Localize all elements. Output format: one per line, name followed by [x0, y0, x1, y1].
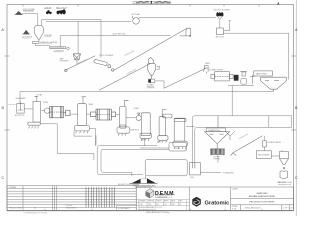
svg-text:SCALE: SCALE [232, 205, 238, 208]
svg-text:TANK: TANK [141, 139, 146, 142]
svg-text:WATER TANK: WATER TANK [256, 73, 268, 76]
label underlines [22, 9, 155, 88]
launder L1 [28, 122, 41, 128]
wire: launder tails route [40, 124, 94, 160]
wire: aux piping [228, 84, 254, 86]
wire: tank base drain [74, 131, 92, 136]
wire: tailings long line upper [192, 116, 291, 163]
wire: box to bag bin [271, 155, 279, 157]
DENM logo [146, 189, 154, 198]
svg-text:Gratomic: Gratomic [205, 200, 231, 206]
svg-text:engineering: engineering [157, 195, 167, 198]
wire: feed line upper [42, 20, 101, 26]
wire: cleaner feed drop [268, 116, 270, 128]
svg-text:C:\DENM\GH001_FLOW.dwg: C:\DENM\GH001_FLOW.dwg [24, 212, 48, 214]
svg-text:PRODUCT SIZE: PRODUCT SIZE [9, 208, 22, 210]
incline conveyor CV-01b [65, 56, 96, 72]
svg-text:PROCESS FLOW SHEET: PROCESS FLOW SHEET [249, 201, 275, 203]
svg-text:DUST RETURN: DUST RETURN [113, 33, 127, 35]
svg-text:C: C [2, 176, 5, 180]
conditioning column K1 [33, 93, 43, 122]
wire: T2 base drain [90, 128, 96, 145]
column tank T4 [140, 113, 151, 141]
wire: press discharge [217, 156, 219, 163]
wire: vertical to concentrate lines [95, 135, 97, 145]
wire: feeder to conveyor [35, 44, 49, 47]
wire: mill2 to T3 [116, 113, 120, 115]
wire: recycle water line [20, 92, 274, 104]
filter press FP1 [210, 149, 224, 161]
svg-text:D.M.: D.M. [140, 204, 144, 206]
wire: tailings long line lower [195, 127, 292, 162]
incline conveyor CV-04 [164, 68, 206, 88]
svg-text:MOISTURE %: MOISTURE % [66, 208, 77, 210]
attrition tank A1 [9, 98, 27, 117]
svg-text:DENM ENGINEERING (PTY) LTD: DENM ENGINEERING (PTY) LTD [138, 207, 163, 209]
wire: line into magnet box [140, 147, 169, 149]
misc small labels [130, 130, 181, 150]
svg-text:ROTARY VALVE: ROTARY VALVE [268, 141, 282, 144]
svg-text:CRUSHER: CRUSHER [60, 61, 70, 63]
svg-text:PUMP BOX: PUMP BOX [130, 130, 140, 132]
svg-text:D.M.: D.M. [148, 204, 152, 206]
pump P0 [241, 78, 247, 84]
rotary dryer D1 [209, 68, 233, 81]
svg-text:STOCKPILE: STOCKPILE [22, 37, 33, 39]
wire: dryer area drop [231, 85, 233, 115]
CV-04 head + dryer feed bin [204, 63, 211, 74]
svg-text:05: 05 [179, 204, 181, 206]
micronizer box [256, 147, 271, 158]
stream table column block [86, 187, 115, 207]
border frame [7, 5, 294, 211]
paper edge right [295, 0, 297, 216]
dry hi-g screen U2 [214, 10, 231, 20]
water tank box [254, 71, 273, 76]
svg-text:ATTRITION: ATTRITION [15, 114, 25, 117]
roll crusher assembly Q2 [94, 55, 114, 71]
jaw crusher Q1 [60, 54, 81, 65]
wire: T4 base drain [144, 138, 146, 145]
conveyor CV-01 [50, 47, 69, 53]
svg-text:STREAM: STREAM [9, 186, 17, 189]
table texts [9, 183, 140, 210]
svg-text:N.T.S.: N.T.S. [232, 209, 237, 211]
svg-text:C: C [295, 176, 298, 180]
tank T3 [117, 100, 130, 135]
svg-text:CONVEYOR: CONVEYOR [54, 50, 65, 52]
svg-text:FEEDER: FEEDER [147, 86, 155, 88]
incline conveyor CV-05 [231, 133, 263, 155]
svg-text:1 OF 1: 1 OF 1 [283, 207, 289, 209]
wire: oversize return L [60, 36, 78, 47]
svg-text:DRY HI-G SCREEN: DRY HI-G SCREEN [214, 10, 231, 12]
cleaner trough T7 [205, 116, 230, 149]
wire: long return line [78, 35, 170, 37]
ball mill M2 [91, 109, 116, 120]
svg-text:FEED: FEED [205, 63, 210, 65]
svg-text:SCRUBBER: SCRUBBER [16, 98, 27, 100]
svg-text:www.denm.co.za: www.denm.co.za [278, 184, 291, 186]
svg-text:dnmengineering.co.za: dnmengineering.co.za [138, 209, 154, 211]
screen hopper V2 [147, 63, 160, 79]
DENM signature grid [136, 200, 189, 211]
valve pipe [250, 75, 255, 84]
wire: feeder to CV-04 tail [155, 81, 164, 88]
svg-text:PRESS: PRESS [214, 158, 221, 160]
wire: screen return stub [224, 21, 230, 31]
svg-text:PUMP: PUMP [134, 108, 140, 110]
wire: concentrate line 1 [97, 146, 157, 175]
stream table [7, 186, 136, 211]
wire: mill1 to tank1 [70, 113, 78, 115]
north arrow mark [277, 2, 279, 5]
wire: screen to feed box [219, 19, 221, 28]
wire: line to fan [46, 20, 131, 22]
svg-text:05: 05 [291, 207, 293, 209]
svg-text:GRATOMIC: GRATOMIC [256, 192, 268, 195]
ROM stockpile S1 [14, 9, 35, 15]
conveyor CV-02 head structure [180, 28, 191, 37]
sump box [169, 142, 187, 151]
ball mill M1 [50, 107, 70, 118]
svg-text:t/h: t/h [34, 207, 36, 210]
wire: T3 to pump2 [126, 117, 136, 119]
svg-text:CLIENT: CLIENT [232, 188, 238, 190]
svg-text:GH001-APD5000x07: GH001-APD5000x07 [245, 206, 261, 209]
screen tank T2 [74, 97, 94, 134]
tray on T3 base [120, 125, 125, 127]
svg-text:FLOW SHEET: FLOW SHEET [118, 208, 131, 210]
rotary feeder F2 [147, 79, 155, 88]
crushed stockpile S2 [22, 30, 33, 38]
dryer motor [240, 71, 247, 76]
wire: T6 to enclosure [186, 126, 195, 128]
cleaner label box [206, 128, 225, 132]
title block frame [136, 187, 293, 210]
wire: tank1 to mill2 [86, 113, 90, 115]
wire: bin to bagging [191, 172, 235, 180]
incline conveyor CV-03 (lower diagonal) [99, 64, 151, 91]
svg-text:TANK: TANK [88, 103, 93, 106]
CV-03 head structure [149, 57, 154, 63]
svg-text:DUST FAN: DUST FAN [131, 13, 141, 16]
table footer cell [24, 206, 137, 215]
ROM bin hopper [34, 26, 52, 42]
svg-text:AIR LOCK: AIR LOCK [216, 36, 225, 39]
pump P1 [41, 102, 49, 113]
svg-text:ROM BIN: ROM BIN [44, 35, 52, 37]
title box right [231, 199, 294, 211]
svg-text:STOCKPILE: STOCKPILE [23, 11, 34, 13]
border ticks and grid letters [5, 5, 297, 211]
svg-text:DESIGN: DESIGN [148, 201, 155, 203]
svg-text:CHECK: CHECK [156, 201, 163, 203]
settling tank T1 [261, 77, 287, 91]
svg-text:2020: 2020 [171, 204, 175, 206]
svg-text:CELLS: CELLS [175, 148, 181, 150]
wire: enclosure right verticals [291, 116, 293, 128]
svg-text:PUMP: PUMP [43, 102, 49, 104]
dryer feed box [216, 28, 225, 39]
Gratomic logo icon [192, 197, 201, 207]
wire: scrubber to column [24, 108, 33, 110]
pump P2 [134, 108, 142, 121]
svg-text:VIBRATING FEEDER: VIBRATING FEEDER [40, 41, 58, 44]
svg-text:N.K.: N.K. [156, 204, 160, 206]
svg-text:TO BAGGING: TO BAGGING [223, 172, 235, 175]
svg-text:DENM CONSULTING + ENG: DENM CONSULTING + ENG [135, 185, 156, 187]
incline conveyor CV-02 (long diagonal) [113, 28, 187, 71]
svg-text:AUKAM GRAPHITE MINE: AUKAM GRAPHITE MINE [249, 195, 275, 198]
wire: concentrate line 2 [101, 149, 169, 176]
wire: fan to dry screen [140, 17, 216, 19]
wire: drop to roll crusher [100, 20, 102, 58]
wire: feed box to settling tank [223, 33, 288, 79]
haul truck icon [56, 6, 68, 14]
wire: drop to jaw crusher [77, 21, 79, 53]
svg-text:MAG: MAG [157, 141, 162, 144]
product bin V3 [190, 163, 201, 175]
concentrate stockpile S3 [130, 176, 158, 189]
vibrating feeder F1 [33, 41, 58, 44]
svg-text:FLOAT: FLOAT [37, 93, 44, 96]
fan blower B1 [131, 13, 141, 24]
scale bar [133, 1, 171, 4]
tank T6 [173, 118, 188, 149]
svg-text:ROLL CRUSHER: ROLL CRUSHER [99, 55, 114, 57]
column tank T5 [158, 110, 172, 143]
svg-text:MICRONIZER: MICRONIZER [258, 155, 270, 157]
dryer drive [234, 75, 239, 81]
bagging bin V4 [278, 150, 289, 184]
V chute [225, 131, 235, 140]
svg-text:ROTARY DRYER: ROTARY DRYER [209, 68, 224, 71]
rotary valve RV1 [263, 136, 282, 147]
enclosure box C [145, 160, 187, 176]
wire: stockpile to ROM bin [22, 14, 38, 26]
front end loader icon [44, 6, 52, 14]
